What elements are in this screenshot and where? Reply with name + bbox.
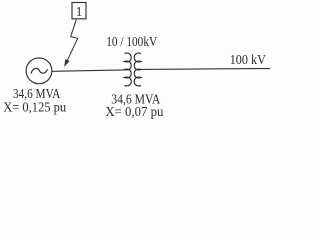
svg-text:10 / 100kV: 10 / 100kV — [106, 35, 157, 50]
fault marker box 1 — [72, 3, 86, 19]
svg-text:1: 1 — [76, 4, 83, 19]
svg-text:X= 0,07 pu: X= 0,07 pu — [105, 105, 163, 120]
transformer T1 primary winding — [125, 53, 132, 86]
generator G1 — [26, 58, 52, 84]
svg-text:X= 0,125 pu: X= 0,125 pu — [3, 100, 66, 115]
svg-text:100 kV: 100 kV — [230, 53, 266, 68]
lightning fault arrow — [65, 20, 78, 67]
wire transformer to 100 kV network — [141, 68, 270, 71]
wire generator to transformer — [52, 70, 125, 71]
transformer T1 secondary winding — [134, 53, 141, 86]
